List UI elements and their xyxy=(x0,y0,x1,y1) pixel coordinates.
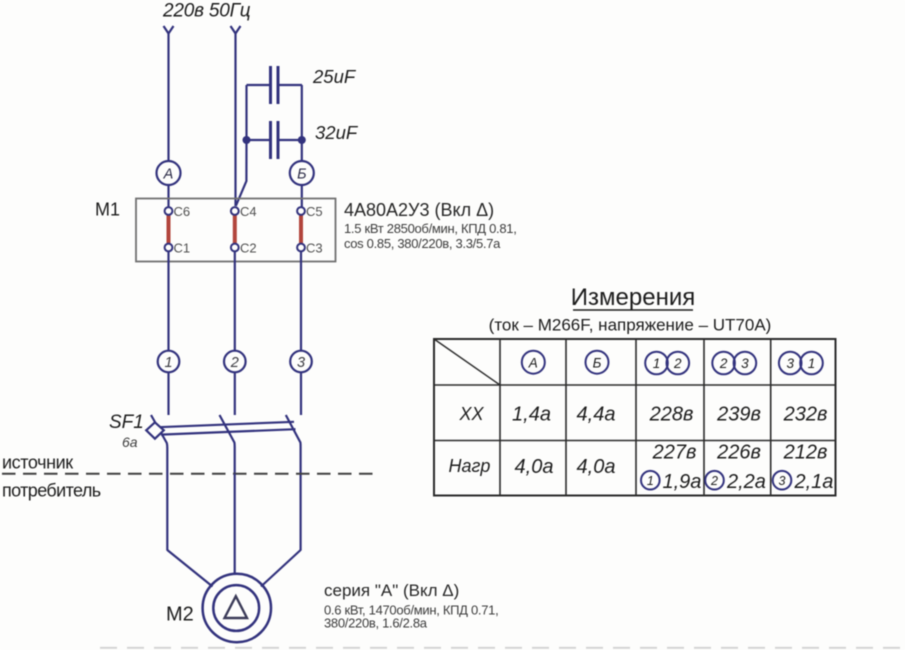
capacitor 32uF xyxy=(269,121,272,159)
svg-text:4,0а: 4,0а xyxy=(515,456,554,478)
svg-text:ХХ: ХХ xyxy=(458,404,484,424)
wire to motor right xyxy=(261,550,301,587)
switch SF1 blade 1 xyxy=(151,415,167,551)
wire C3 down xyxy=(300,251,302,351)
wire cap bottom right xyxy=(278,139,302,141)
wire L1 upper xyxy=(167,33,169,162)
terminal C2 xyxy=(231,244,239,252)
capacitor branch left vertical xyxy=(245,85,247,140)
svg-text:2: 2 xyxy=(673,356,682,371)
wire to motor mid xyxy=(234,474,236,575)
svg-text:228в: 228в xyxy=(649,404,694,426)
terminal C3 xyxy=(297,244,305,252)
switch handle xyxy=(146,422,164,438)
svg-text:3: 3 xyxy=(297,355,305,371)
wire C2 down xyxy=(234,251,236,351)
svg-text:226в: 226в xyxy=(716,442,761,464)
svg-text:С4: С4 xyxy=(240,204,257,219)
voltmeter node 3 xyxy=(290,351,312,373)
svg-text:1: 1 xyxy=(653,356,661,371)
svg-text:2,2а: 2,2а xyxy=(726,471,766,493)
wire cap bottom left xyxy=(247,139,271,141)
svg-text:2: 2 xyxy=(230,355,239,371)
svg-text:серия "А" (Вкл Δ): серия "А" (Вкл Δ) xyxy=(324,581,459,600)
svg-text:380/220в, 1.6/2.8а: 380/220в, 1.6/2.8а xyxy=(324,616,428,631)
svg-text:4,4а: 4,4а xyxy=(577,404,616,426)
ammeter B xyxy=(290,161,314,185)
svg-text:М1: М1 xyxy=(95,200,120,220)
wire A to C6 xyxy=(167,185,169,208)
svg-text:С6: С6 xyxy=(174,204,191,219)
switch SF1 blade 3 xyxy=(286,415,301,551)
wire L2 xyxy=(234,33,236,206)
svg-text:М2: М2 xyxy=(166,604,194,626)
motor M1 terminal box xyxy=(136,199,336,262)
voltmeter node 1 xyxy=(158,351,180,373)
red link C5-C3 xyxy=(299,215,303,245)
svg-text:С2: С2 xyxy=(240,241,257,256)
switch linkage bar xyxy=(159,422,294,427)
svg-text:(ток – М266F, напряжение – UT7: (ток – М266F, напряжение – UT70A) xyxy=(489,316,772,335)
svg-text:1,4а: 1,4а xyxy=(512,404,551,426)
wire node2 to switch xyxy=(234,372,236,415)
svg-text:2: 2 xyxy=(710,474,718,488)
header circle A xyxy=(522,351,545,374)
voltmeter node 2 xyxy=(224,351,246,373)
svg-text:4,0а: 4,0а xyxy=(577,456,616,478)
svg-text:1,9а: 1,9а xyxy=(663,471,702,493)
motor M2 inner circle xyxy=(213,585,259,631)
svg-text:2,1а: 2,1а xyxy=(794,471,834,493)
svg-text:Измерения: Измерения xyxy=(571,284,695,311)
svg-text:С5: С5 xyxy=(306,204,323,219)
svg-text:С3: С3 xyxy=(306,241,323,256)
svg-text:220в 50Гц: 220в 50Гц xyxy=(162,1,251,22)
svg-text:32uF: 32uF xyxy=(315,122,359,143)
svg-text:25uF: 25uF xyxy=(312,66,357,87)
header circles 2 3 xyxy=(712,352,735,375)
svg-text:227в: 227в xyxy=(652,442,697,464)
svg-text:1: 1 xyxy=(164,355,172,371)
svg-text:cos 0.85, 380/220в, 3.3/5.7а: cos 0.85, 380/220в, 3.3/5.7а xyxy=(344,236,501,251)
wire C1 down xyxy=(167,251,169,351)
motor M2 delta triangle xyxy=(225,596,248,618)
terminal C5 xyxy=(297,207,305,215)
table frame xyxy=(434,339,836,496)
red link C6-C1 xyxy=(167,215,171,245)
junction node left xyxy=(243,136,251,144)
wire cap top right xyxy=(278,84,302,86)
header circle B xyxy=(586,351,609,374)
wire node3 to switch xyxy=(300,372,302,415)
svg-text:SF1: SF1 xyxy=(109,412,144,433)
red link C4-C2 xyxy=(233,215,237,245)
svg-text:С1: С1 xyxy=(174,241,191,256)
svg-text:3: 3 xyxy=(779,474,786,488)
svg-text:3: 3 xyxy=(786,356,794,371)
motor M2 outer circle xyxy=(203,574,271,642)
wire slant to C4 xyxy=(236,140,247,206)
boundary dashed line xyxy=(2,473,380,475)
svg-text:212в: 212в xyxy=(783,442,828,464)
svg-text:Б: Б xyxy=(297,167,306,183)
ammeter A xyxy=(157,161,181,185)
wire cap right vertical xyxy=(301,85,303,162)
svg-text:2: 2 xyxy=(719,356,728,371)
svg-text:Б: Б xyxy=(593,356,602,371)
svg-text:А: А xyxy=(163,167,174,183)
svg-text:А: А xyxy=(528,356,538,371)
wire to motor left xyxy=(167,550,212,587)
svg-text:4А80А2У3 (Вкл Δ): 4А80А2У3 (Вкл Δ) xyxy=(344,200,494,220)
wire cap top left xyxy=(247,84,271,86)
header diagonal xyxy=(434,339,500,385)
svg-text:239в: 239в xyxy=(716,404,761,426)
capacitor 25uF xyxy=(269,66,272,104)
wire node1 to switch xyxy=(167,372,169,415)
svg-text:источник: источник xyxy=(2,453,73,473)
wire L2 arrow xyxy=(231,26,241,34)
svg-text:3: 3 xyxy=(741,356,749,371)
svg-text:232в: 232в xyxy=(783,404,828,426)
svg-text:1: 1 xyxy=(647,474,654,488)
svg-text:потребитель: потребитель xyxy=(2,481,101,501)
svg-text:1.5 кВт 2850об/мин, КПД 0.81,: 1.5 кВт 2850об/мин, КПД 0.81, xyxy=(344,221,517,236)
terminal C6 xyxy=(165,207,173,215)
terminal C1 xyxy=(165,244,173,252)
svg-text:1: 1 xyxy=(808,356,816,371)
header circles 1 2 xyxy=(645,352,668,375)
wire L1 arrow xyxy=(164,26,174,34)
header circles 3 1 xyxy=(779,352,802,375)
svg-text:Нагр: Нагр xyxy=(449,456,491,476)
switch SF1 blade 2 xyxy=(220,415,235,474)
svg-text:6а: 6а xyxy=(122,434,138,450)
wire B to C5 xyxy=(301,185,303,208)
terminal C4 xyxy=(231,207,239,215)
junction node right xyxy=(298,136,306,144)
